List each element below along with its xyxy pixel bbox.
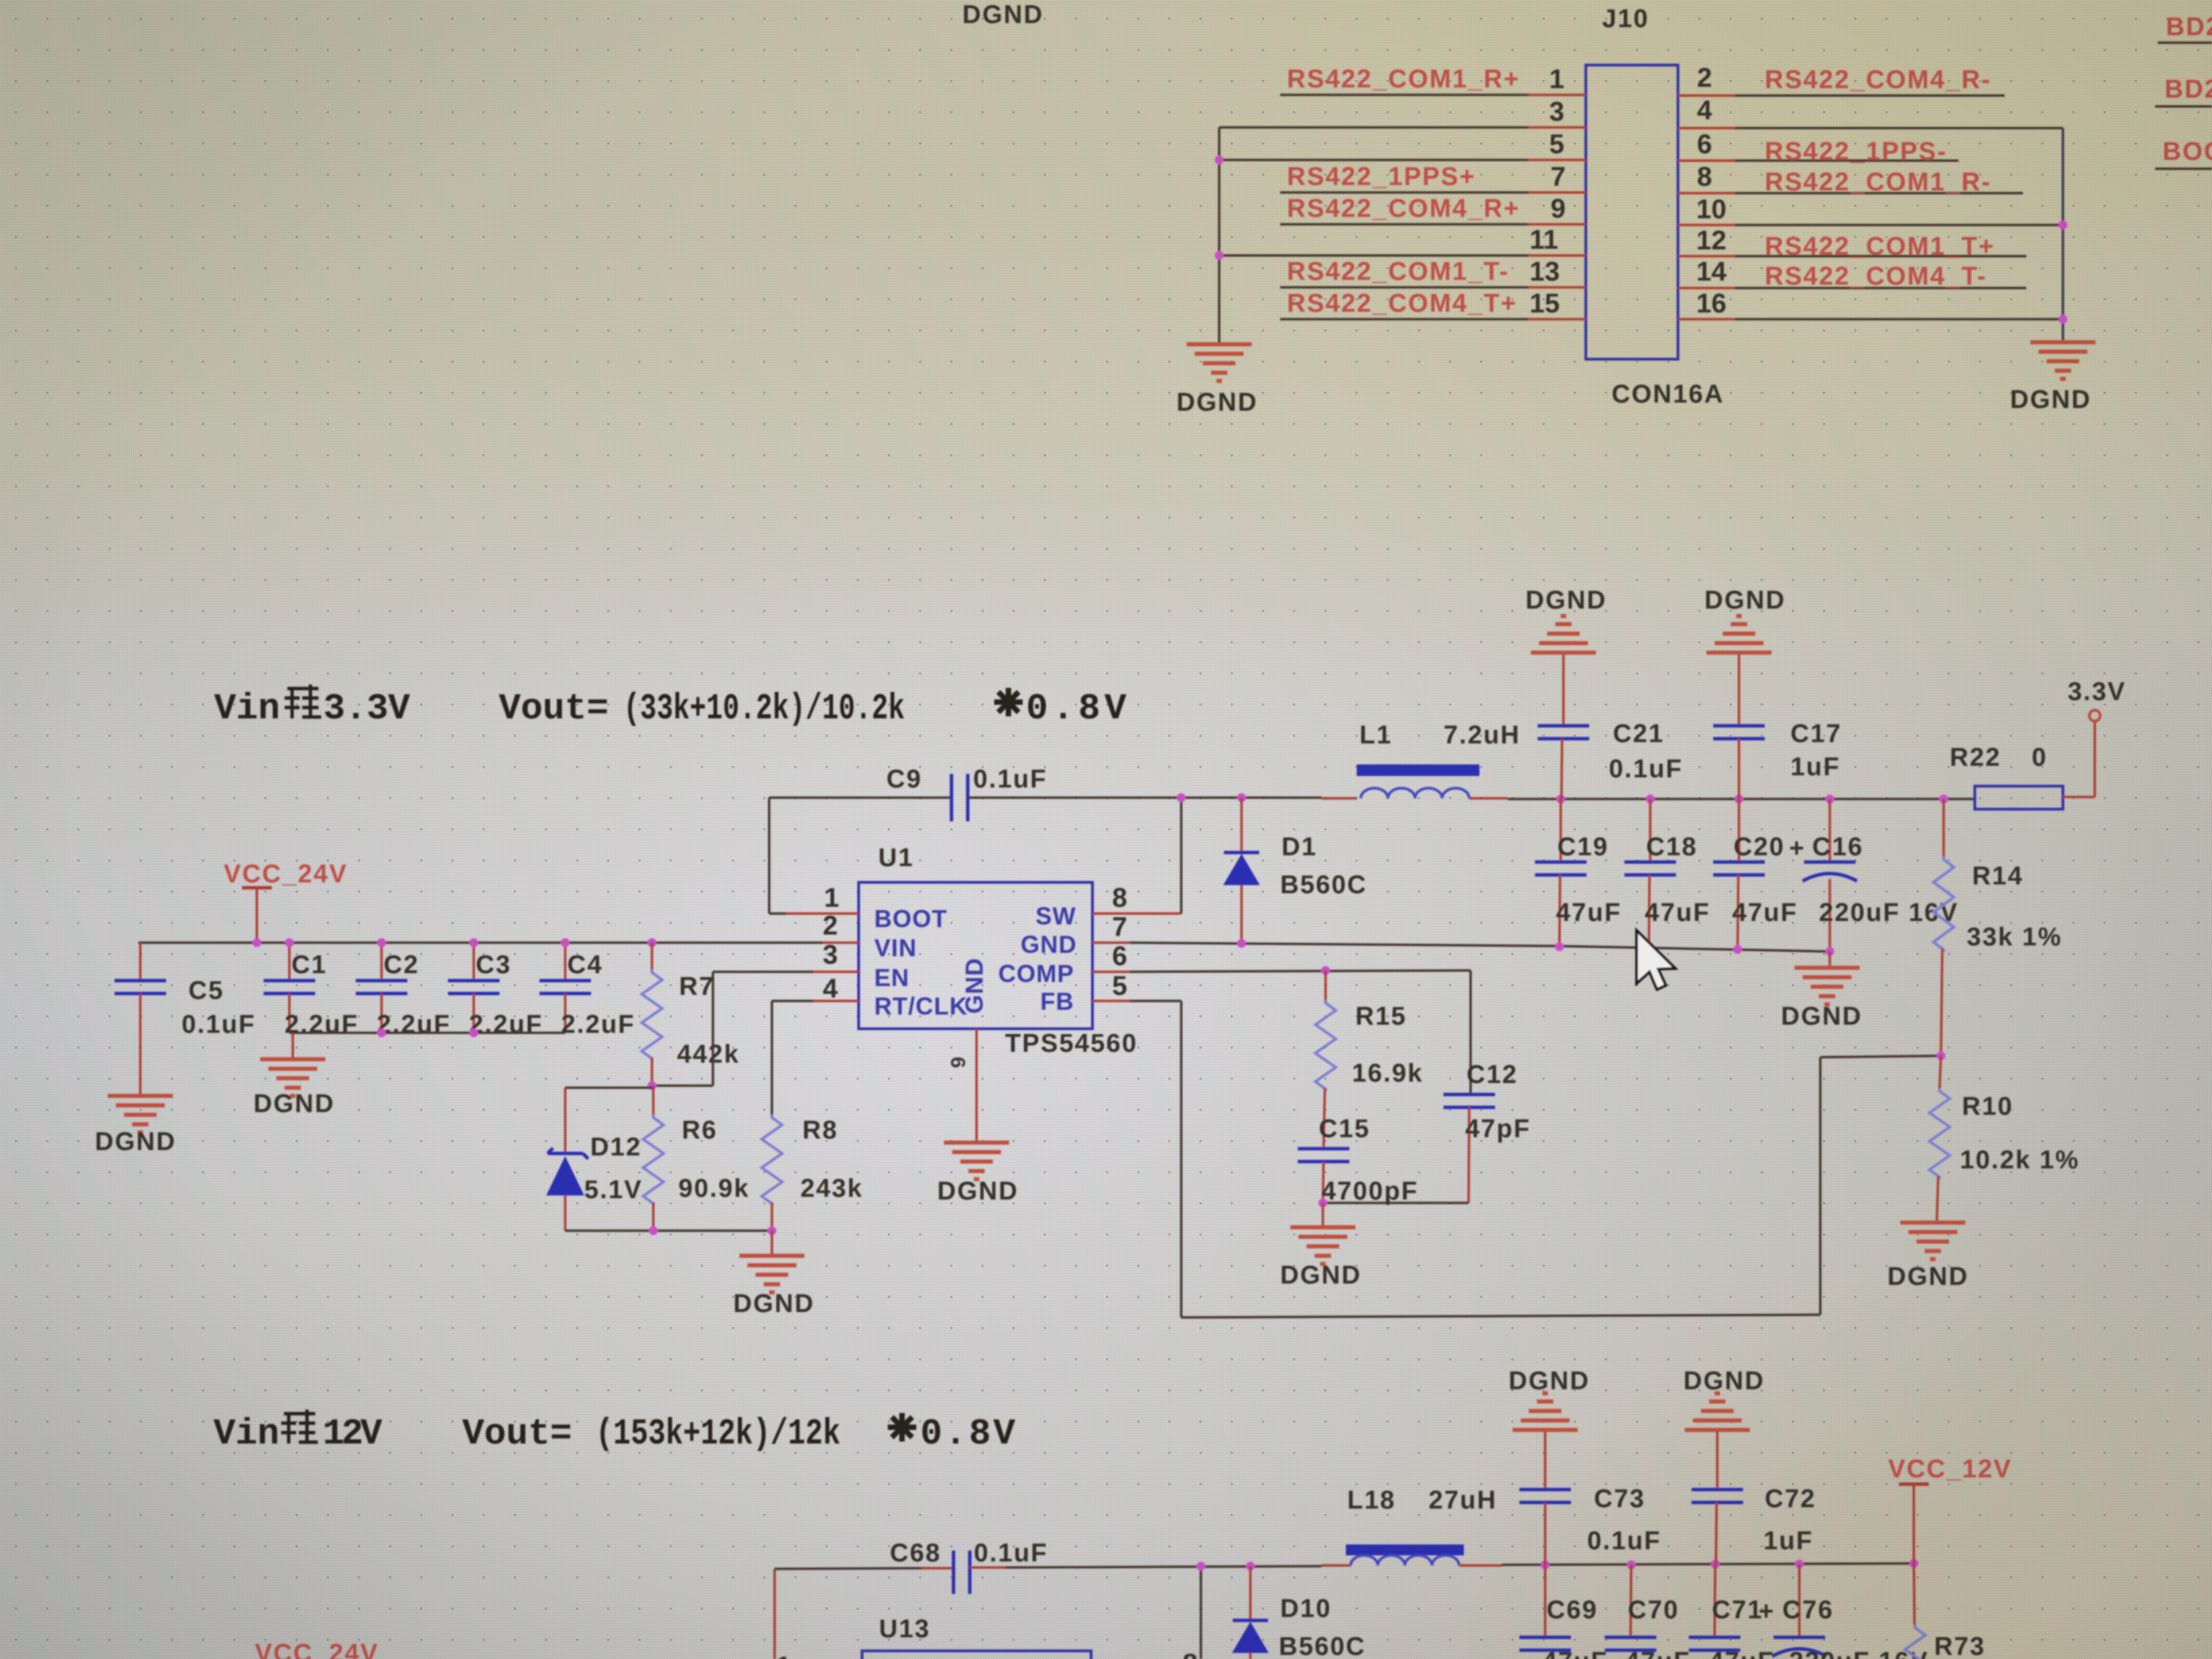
pin 4 [1678, 96, 1735, 128]
wire pin5 to ground rail [1219, 159, 1528, 161]
resistor R7 442k [642, 943, 740, 1086]
ground DGND right of J10 [2010, 342, 2095, 414]
wire D12 branch [565, 1088, 652, 1152]
junction R7 bottom EN [648, 1082, 657, 1090]
diode D10 B560C [1232, 1566, 1366, 1659]
op-amp U13 body [862, 1615, 1091, 1659]
net label RS422_COM1_R- [1765, 168, 1991, 197]
junction C1 top [285, 939, 294, 947]
capacitor C70 47uF [1605, 1565, 1691, 1659]
op-amp U1 TPS54560 body [859, 844, 1138, 1058]
capacitor C68 0.1uF [890, 1539, 1048, 1594]
net label RS422_COM1_T+ [1765, 232, 1995, 261]
capacitor C9 0.1uF [886, 765, 1047, 821]
net label RS422_COM4_T+ [1287, 289, 1517, 318]
wire C1-C4 bottoms [289, 1031, 565, 1034]
wire net RS422_COM1_R- [1735, 192, 2023, 194]
ground DGND below C15 [1280, 1203, 1361, 1290]
inductor L18 27uH [1346, 1486, 1497, 1565]
pin 15 [1528, 289, 1586, 319]
ground DGND above C17 [1704, 586, 1786, 653]
wire COMP net [1130, 970, 1471, 1094]
capacitor C21 0.1uF [1538, 655, 1683, 799]
net label DGND (top) [962, 1, 1044, 29]
capacitor C73 0.1uF [1519, 1432, 1661, 1565]
junction rail C16 [1826, 795, 1835, 804]
wire pin3 to ground rail [1219, 126, 1528, 129]
net label RS422_COM4_T- [1765, 262, 1987, 291]
wire net RS422_COM1_T- [1280, 286, 1528, 289]
wire net RS422_1PPS+ [1280, 191, 1528, 194]
wire left ground rail vertical [1218, 127, 1221, 342]
pin 16 [1678, 289, 1735, 319]
wire C68 to SW rail [970, 1565, 1351, 1568]
net label BD2 second (cut at right edge) [2165, 75, 2212, 104]
wire VIN bus VCC_24V [138, 941, 823, 944]
capacitor C71 47uF [1689, 1564, 1775, 1659]
pin 2 [1678, 63, 1735, 96]
pin 2 VIN [823, 911, 859, 943]
resistor R6 90.9k [643, 1086, 750, 1231]
wire SW rail to L1 [968, 798, 1357, 798]
capacitor C69 47uF [1519, 1565, 1608, 1659]
junction COMP R15 [1322, 966, 1330, 975]
net label RS422_COM1_T- [1287, 258, 1509, 286]
junction right rail pin10 [2059, 221, 2068, 230]
wire net RS422_1PPS- [1735, 159, 1959, 162]
pin 13 [1528, 257, 1586, 287]
junction D1 top [1237, 794, 1246, 802]
junction left rail pin5 [1215, 156, 1224, 165]
pin 14 [1678, 257, 1735, 288]
capacitor C2 [356, 943, 451, 1039]
capacitor C4 [539, 943, 635, 1039]
pin 6 COMP [1092, 941, 1130, 972]
junction rail C70 [1627, 1561, 1636, 1570]
wire net RS422_COM4_R+ [1280, 223, 1528, 226]
diode D1 B560C [1223, 798, 1367, 943]
junction left rail pin11 [1215, 251, 1224, 260]
junction C2 top [377, 939, 386, 947]
capacitor C76 220uF polarized [1759, 1564, 1929, 1659]
capacitor C19 47uF [1535, 799, 1622, 947]
junction R6 bottom [649, 1227, 658, 1235]
ground DGND below C5 [95, 1096, 176, 1156]
wire pin16 to right ground rail [1735, 318, 2063, 321]
wire D12 R6 R8 bottoms [565, 1229, 772, 1232]
pin 1 [1528, 64, 1586, 95]
capacitor C15 4700pF [1298, 1115, 1418, 1206]
junction C3 bottom [470, 1029, 478, 1038]
ground DGND output caps [1781, 951, 1862, 1031]
ground DGND below C1 [253, 1059, 335, 1118]
junction rail C73/C69 [1541, 1561, 1550, 1570]
formula Vout= (153k+12k)/12k *0.8V [462, 1413, 1016, 1455]
pin 12 [1678, 226, 1735, 256]
junction C15 bottom [1319, 1199, 1328, 1208]
power port VCC_12V [1888, 1455, 2012, 1563]
junction GND net C19 [1555, 943, 1564, 951]
resistor R22 0 [1950, 743, 2063, 809]
junction C3 top [470, 939, 478, 947]
pin 5 [1528, 129, 1586, 160]
junction rail C72/C71 [1711, 1560, 1720, 1569]
wire net RS422_COM4_T+ [1280, 318, 1528, 321]
pin 4 RT/CLK [813, 974, 859, 1004]
junction right rail pin16 [2059, 315, 2068, 324]
capacitor C72 1uF [1692, 1432, 1816, 1564]
junction R7 top [648, 939, 657, 947]
ground DGND below R10 [1887, 1223, 1969, 1291]
inductor L1 7.2uH [1357, 721, 1520, 798]
wire net RS422_COM1_T+ [1735, 255, 2026, 258]
junction C4 top [561, 939, 570, 947]
ground DGND above C21 [1525, 586, 1607, 653]
wire L18 to VCC_12V rail [1459, 1563, 1914, 1565]
junction VCC_24V stub [253, 939, 262, 947]
connector J10 body CON16A [1586, 65, 1678, 359]
resistor R8 243k [762, 1115, 863, 1231]
pin 8 [1678, 162, 1735, 193]
formula Vout= (33k+10.2k)/10.2k *0.8V [499, 688, 1127, 730]
ground DGND left of J10 [1176, 344, 1258, 417]
junction rail VCC_12V [1910, 1559, 1919, 1568]
pin 8 U13 [1183, 1649, 1197, 1659]
pin 7 GND [1092, 912, 1130, 943]
net label BOO (cut at right edge) [2163, 138, 2212, 166]
junction GND net C16 [1826, 947, 1835, 956]
wire net RS422_COM4_T- [1735, 287, 2026, 289]
connector J10 value CON16A [1612, 380, 1724, 409]
power port VCC_24V lower [255, 1639, 379, 1659]
capacitor C20 47uF [1713, 799, 1798, 949]
pin 3 [1528, 97, 1586, 127]
node 3.3V terminal [2068, 678, 2126, 721]
junction C2 bottom [377, 1029, 386, 1038]
ground DGND below U1 [937, 1143, 1019, 1206]
wire GND net from pin7 [1130, 943, 1830, 951]
wire C1 bottom to ground [291, 1033, 294, 1057]
pin 9 GND pad [947, 1029, 977, 1141]
junction GND net C20 [1734, 945, 1742, 954]
connector J10 designator [1602, 5, 1649, 33]
ground DGND above C72 [1683, 1367, 1765, 1430]
wire EN net [652, 972, 813, 1086]
ground DGND above C73 [1509, 1367, 1590, 1430]
capacitor C5 [115, 943, 255, 1094]
net label RS422_COM4_R+ [1287, 194, 1520, 223]
pin 10 [1678, 194, 1735, 225]
net label BD2 (cut at right edge) [2166, 13, 2212, 41]
wire net BD2 second underline [2155, 105, 2212, 108]
pin 3 EN [813, 940, 859, 972]
capacitor C3 [448, 943, 543, 1039]
resistor R14 33k 1% [1933, 799, 2062, 1056]
junction SW vertical 12V [1197, 1562, 1206, 1571]
wire pin10 to right ground rail [1735, 224, 2063, 226]
title Vin to 3.3V [214, 684, 411, 730]
resistor R10 10.2k 1% [1929, 1056, 2080, 1221]
resistor R15 16.9k [1315, 970, 1423, 1149]
net label RS422_COM4_R- [1765, 66, 1991, 94]
wire L1 to output rail [1469, 798, 1975, 799]
wire R8 bottom to ground [771, 1231, 773, 1254]
junction D10 top [1246, 1562, 1255, 1571]
mouse cursor [1637, 930, 1675, 989]
power port VCC_24V [224, 860, 348, 943]
pin 11 [1528, 225, 1586, 255]
net label RS422_1PPS- [1765, 138, 1947, 166]
junction FB R14 R10 [1937, 1052, 1946, 1061]
wire net BD2 underline [2158, 41, 2212, 44]
net label RS422_1PPS+ [1287, 163, 1476, 191]
pin 1 BOOT [823, 883, 859, 914]
junction rail C19 [1557, 795, 1565, 804]
wire SW pin vertical U13 [1200, 1566, 1202, 1659]
capacitor C12 47pF [1443, 1061, 1531, 1203]
wire RT/CLK net [772, 1001, 813, 1115]
junction rail C76 [1795, 1560, 1804, 1569]
resistor R73 [1905, 1563, 1986, 1659]
junction rail R14 [1940, 795, 1948, 804]
wire pin4 to right ground rail [1735, 127, 2063, 129]
wire R22 to 3.3V terminal [2063, 721, 2095, 797]
junction rail C17/C20 [1735, 795, 1744, 804]
wire net BOO underline [2155, 167, 2212, 170]
junction GND net D1 [1237, 939, 1246, 948]
title Vin to 12V [213, 1410, 383, 1455]
pin 9 [1528, 194, 1586, 224]
wire net RS422_COM4_R- [1735, 94, 2005, 97]
pin 5 FB [1092, 971, 1130, 1001]
junction rail C18 [1646, 795, 1655, 804]
pin 8 SW [1092, 883, 1181, 914]
junction SW vertical [1177, 794, 1186, 802]
pin 1 U13 [776, 1652, 791, 1659]
wire pin11 to ground rail [1219, 254, 1528, 257]
wire C15 C12 bottoms [1323, 1202, 1469, 1204]
junction R8 bottom [768, 1227, 777, 1235]
zener diode D12 5.1V [546, 1133, 642, 1231]
capacitor C1 [264, 943, 359, 1039]
net label RS422_COM1_R+ [1287, 65, 1520, 94]
ground DGND below R8 [733, 1256, 815, 1318]
capacitor C17 1uF [1713, 655, 1842, 799]
pin 6 [1678, 129, 1735, 161]
pin 7 [1528, 162, 1586, 192]
capacitor C16 220uF 16V polarized [1789, 799, 1959, 951]
wire net RS422_COM1_R+ [1280, 94, 1528, 96]
capacitor C18 47uF [1624, 799, 1711, 948]
wire BOOT to C9 [769, 798, 951, 914]
wire SW pin vertical [1180, 798, 1183, 914]
wire right ground rail vertical [2062, 128, 2064, 340]
wire BOOT net U13 [775, 1568, 954, 1659]
wire FB net loop [1130, 1001, 1941, 1317]
